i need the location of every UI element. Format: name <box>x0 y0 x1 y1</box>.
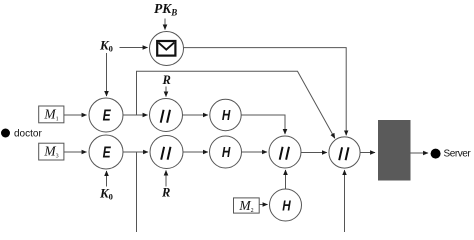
svg-text:E: E <box>103 106 112 124</box>
svg-text:doctor: doctor <box>14 129 42 140</box>
svg-text:R: R <box>162 73 171 87</box>
svg-text:Server: Server <box>444 149 472 160</box>
svg-text:E: E <box>103 143 112 161</box>
svg-text:H: H <box>222 144 231 161</box>
svg-text:H: H <box>282 197 291 214</box>
svg-text:R: R <box>161 186 170 200</box>
svg-text:H: H <box>222 107 231 124</box>
